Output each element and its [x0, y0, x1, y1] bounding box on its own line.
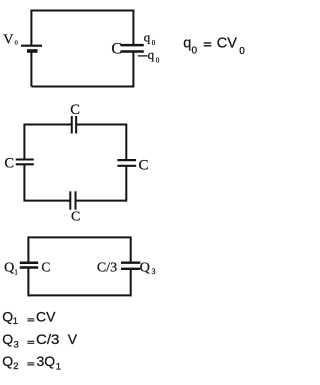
- svg-text:Q: Q: [4, 261, 14, 276]
- svg-text:q: q: [183, 36, 191, 52]
- svg-text:V: V: [68, 331, 78, 347]
- equals sign line2 top bar: [27, 340, 34, 342]
- text line Q1 = CV: [2, 309, 56, 327]
- battery V0 long plate: [21, 45, 42, 47]
- wire circuit3 left upper: [27, 236, 29, 261]
- svg-text:CV: CV: [217, 36, 237, 52]
- capacitor C2right bottom plate: [117, 165, 136, 167]
- capacitor Q1C top plate: [20, 261, 38, 264]
- equals sign line2 bottom bar: [27, 342, 34, 344]
- svg-text:0: 0: [156, 56, 160, 64]
- wire circuit3 bottom: [28, 294, 130, 296]
- wire circuit3 right lower: [130, 269, 132, 296]
- capacitor C2top right plate: [75, 116, 77, 134]
- capacitor C1 bottom plate: [121, 50, 144, 53]
- capacitor C2top left plate: [71, 116, 73, 134]
- svg-text:0: 0: [239, 46, 245, 57]
- capacitor C2left top plate: [16, 158, 34, 160]
- svg-text:0: 0: [152, 39, 156, 47]
- equals sign line3 bottom bar: [27, 364, 34, 366]
- battery V0 short plate: [27, 49, 38, 53]
- capacitor C2bottom right plate: [75, 191, 77, 209]
- wire circuit1 right lower: [132, 52, 134, 87]
- wire circuit2 bottom-right segment: [76, 200, 127, 202]
- svg-text:C: C: [71, 210, 80, 225]
- wire circuit3 top: [28, 236, 130, 238]
- svg-text:3: 3: [14, 339, 19, 350]
- label Q3: [140, 261, 156, 277]
- wire circuit2 top-right segment: [76, 124, 126, 126]
- minus sign of -q0: [138, 55, 148, 57]
- wire circuit3 right upper: [130, 236, 132, 262]
- svg-text:C/3: C/3: [36, 331, 60, 347]
- equation q0 = CV0: [183, 36, 245, 57]
- capacitor C3 bottom plate: [121, 268, 140, 270]
- svg-text:C: C: [70, 102, 80, 118]
- capacitor C2right top plate: [117, 159, 136, 161]
- equals sign line1 top bar: [27, 318, 34, 320]
- wire circuit1 right upper: [132, 10, 134, 45]
- equals sign line1 bottom bar: [27, 320, 34, 322]
- svg-text:Q: Q: [140, 261, 150, 276]
- svg-text:C: C: [111, 40, 122, 57]
- label Q1: [4, 261, 18, 277]
- svg-text:q: q: [148, 47, 155, 62]
- svg-text:q: q: [144, 30, 151, 45]
- capacitor C2left bottom plate: [16, 163, 34, 165]
- svg-text:1: 1: [56, 361, 61, 372]
- wire circuit1 bottom: [31, 86, 133, 88]
- label q0 bottom: [148, 47, 160, 65]
- svg-text:V: V: [3, 32, 13, 47]
- wire circuit2 right upper: [125, 124, 127, 161]
- wire circuit1 left lower: [30, 51, 32, 86]
- capacitor Q1C bottom plate: [20, 266, 38, 269]
- svg-text:Q: Q: [2, 353, 13, 369]
- wire circuit3 left lower: [27, 269, 29, 297]
- svg-text:C: C: [4, 156, 14, 172]
- wire circuit1 left upper: [30, 10, 32, 46]
- capacitor C3 top plate: [121, 262, 140, 264]
- text line Q2 = 3Q1: [2, 353, 61, 372]
- equals sign of equation bottom bar: [204, 45, 212, 47]
- label q0 top: [144, 30, 156, 47]
- svg-text:Q: Q: [2, 331, 13, 347]
- svg-text:C: C: [41, 259, 50, 274]
- wire circuit2 top-left segment: [24, 124, 71, 126]
- svg-text:C: C: [139, 157, 149, 173]
- svg-text:1: 1: [13, 316, 18, 327]
- label V0: [3, 32, 18, 47]
- wire circuit2 left lower: [23, 164, 25, 201]
- svg-text:2: 2: [13, 361, 18, 372]
- svg-text:3Q: 3Q: [37, 353, 56, 369]
- svg-text:3: 3: [152, 267, 156, 276]
- wire circuit1 top: [31, 10, 133, 12]
- svg-text:CV: CV: [36, 309, 56, 325]
- svg-text:C/3: C/3: [97, 261, 117, 276]
- wire circuit2 bottom-left segment: [24, 200, 70, 202]
- wire circuit2 left upper: [23, 124, 25, 160]
- svg-text:Q: Q: [2, 309, 13, 325]
- svg-text:0: 0: [15, 40, 18, 47]
- svg-text:1: 1: [14, 269, 18, 277]
- equals sign of equation top bar: [204, 42, 212, 44]
- equals sign line3 top bar: [27, 362, 34, 364]
- capacitor C2bottom left plate: [69, 191, 71, 209]
- text line Q3 = C/3 V: [2, 331, 78, 350]
- wire circuit2 right lower: [125, 166, 127, 202]
- capacitor C1 top plate: [121, 44, 144, 47]
- svg-text:0: 0: [192, 46, 198, 57]
